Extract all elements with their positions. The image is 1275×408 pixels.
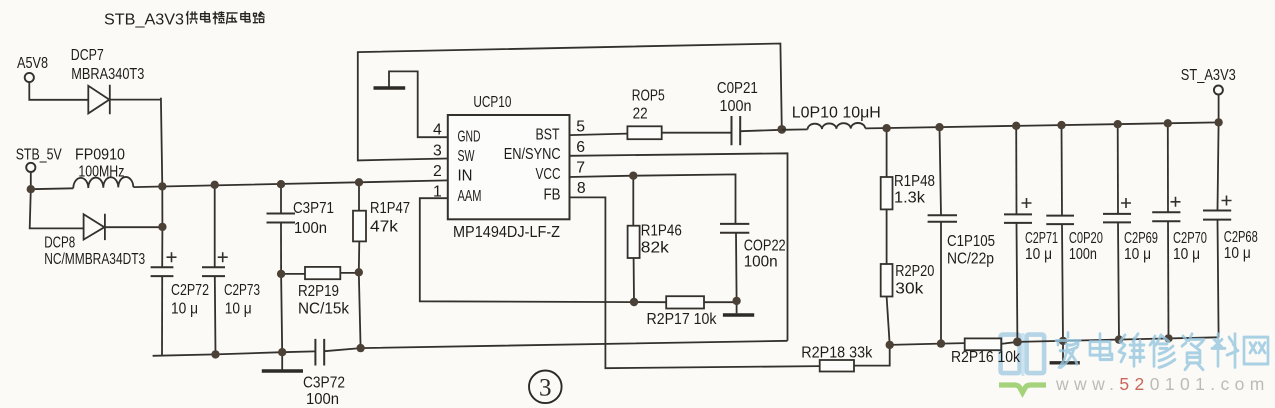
svg-text:R2P20: R2P20 <box>895 263 934 280</box>
junction VCC R1P46 top <box>629 172 637 180</box>
svg-text:8: 8 <box>577 180 586 197</box>
node ST_A3V3 terminal <box>1214 86 1223 95</box>
svg-text:82k: 82k <box>641 240 669 257</box>
junction C3P71 at rail <box>277 180 285 188</box>
capacitor C1P105 <box>928 127 957 343</box>
junction C0P20 at output rail <box>1057 121 1065 129</box>
junction C1P105 at output rail <box>935 123 943 131</box>
junction C2P73 at rail <box>211 181 219 189</box>
svg-text:22: 22 <box>633 106 648 123</box>
junction C3P71 at ground rail <box>278 348 286 356</box>
svg-text:STB_A3V3: STB_A3V3 <box>104 12 184 29</box>
wire output rail <box>865 95 1218 129</box>
wire pin8 FB down to R2P18 <box>570 197 820 368</box>
wire COP22 bottom to junction <box>735 233 738 301</box>
junction C0P20 ground symbol <box>1059 337 1067 345</box>
svg-text:100n: 100n <box>720 98 752 115</box>
svg-text:ROP5: ROP5 <box>632 88 665 105</box>
resistor R1P48 <box>881 128 893 209</box>
svg-text:5: 5 <box>576 119 585 136</box>
wire bottom right ground rail left of R2P16 <box>890 343 965 345</box>
wire pin1 AAM down and right to feedback rail <box>420 198 666 302</box>
resistor R2P19 <box>281 267 359 279</box>
svg-text:NC/22p: NC/22p <box>947 251 994 268</box>
svg-text:L0P10 10μH: L0P10 10μH <box>792 105 881 122</box>
inductor LOP10 <box>808 123 866 129</box>
svg-text:DCP8: DCP8 <box>44 235 75 252</box>
svg-text:6: 6 <box>576 139 585 156</box>
junction C2P69 at output rail <box>1114 120 1122 128</box>
capacitor C2P71 <box>1004 126 1032 342</box>
capacitor C2P72 <box>151 252 177 355</box>
svg-text:R2P18 33k: R2P18 33k <box>801 345 872 362</box>
svg-text:47k: 47k <box>370 219 398 236</box>
wire pin4 GND to ground symbol <box>389 71 448 137</box>
svg-text:VCC: VCC <box>536 166 561 183</box>
svg-text:10 μ: 10 μ <box>171 301 198 318</box>
svg-text:10 μ: 10 μ <box>1173 246 1200 263</box>
wire STB_5V down to rail <box>30 172 32 189</box>
svg-text:COP22: COP22 <box>744 238 786 255</box>
junction diodes at rail <box>158 182 166 190</box>
svg-text:100n: 100n <box>306 391 339 408</box>
junction R2P19 right <box>355 268 363 276</box>
junction C1P105 at ground rail <box>937 339 945 347</box>
resistor R2P16 <box>965 338 1018 350</box>
wire vertical x162 from DCP7 down through rail and DCP8 to C2P72 <box>161 98 163 267</box>
junction COP22 bottom <box>732 297 740 305</box>
svg-text:10 μ: 10 μ <box>1025 246 1052 263</box>
wire main 5V rail <box>31 180 448 189</box>
svg-text:7: 7 <box>576 160 585 177</box>
svg-text:100n: 100n <box>1069 246 1097 263</box>
svg-text:100MHz: 100MHz <box>78 164 124 181</box>
capacitor C3P72 <box>315 339 324 366</box>
svg-text:10 μ: 10 μ <box>1224 245 1251 262</box>
ground below right rail <box>1050 341 1080 363</box>
svg-text:UCP10: UCP10 <box>473 94 511 111</box>
svg-text:C3P72: C3P72 <box>303 375 345 392</box>
svg-text:FB: FB <box>544 187 561 204</box>
svg-text:NC/MMBRA34DT3: NC/MMBRA34DT3 <box>44 251 145 268</box>
ground below bottom rail left <box>262 352 303 371</box>
capacitor C2P68 <box>1203 122 1232 337</box>
svg-text:SW: SW <box>458 148 475 165</box>
wire DCP8 cathode to junction <box>105 226 162 228</box>
svg-text:C0P21: C0P21 <box>717 80 758 97</box>
wire COP21 to SW node <box>741 130 782 131</box>
wire R1P48 to R2P20 <box>886 209 888 264</box>
svg-text:MP1494DJ-LF-Z: MP1494DJ-LF-Z <box>453 224 560 241</box>
svg-text:C1P105: C1P105 <box>947 233 995 250</box>
resistor R1P47 <box>353 182 366 348</box>
svg-text:C2P68: C2P68 <box>1224 229 1258 246</box>
ground bar for GND pin <box>374 86 406 89</box>
svg-text:R1P48: R1P48 <box>894 173 935 190</box>
svg-text:C2P69: C2P69 <box>1124 230 1158 247</box>
wire pin7 VCC to COP22 <box>570 174 736 223</box>
node A5V8 terminal <box>25 73 34 82</box>
svg-text:ST_A3V3: ST_A3V3 <box>1181 67 1236 84</box>
svg-text:2: 2 <box>433 163 442 180</box>
svg-text:C2P71: C2P71 <box>1025 230 1058 247</box>
svg-text:4: 4 <box>433 122 442 139</box>
wire pin6 EN/SYNC loop down to bottom wire <box>570 153 788 340</box>
wire ROP5 to COP21 <box>662 132 731 134</box>
junction STB_5V at rail <box>27 185 35 193</box>
wire SW node to LOP10 <box>782 128 808 130</box>
inductor FP0910 <box>73 177 133 188</box>
resistor R2P18 <box>820 345 890 372</box>
junction R1P47 at ground rail <box>356 344 364 352</box>
node STB_5V terminal <box>26 163 35 172</box>
diode DCP8 <box>84 214 105 240</box>
junction C2P68 at output rail / ST_A3V3 <box>1214 118 1222 126</box>
svg-text:3: 3 <box>433 143 442 160</box>
capacitor C2P69 <box>1103 124 1131 339</box>
svg-text:1.3k: 1.3k <box>894 190 925 207</box>
svg-text:AAM: AAM <box>458 188 482 205</box>
junction R1P46 bottom <box>630 298 638 306</box>
svg-text:NC/15k: NC/15k <box>298 301 349 318</box>
svg-text:R2P17 10k: R2P17 10k <box>647 311 717 328</box>
resistor ROP5 <box>627 126 661 139</box>
svg-text:C3P71: C3P71 <box>293 200 334 217</box>
capacitor C3P71 <box>267 184 296 274</box>
svg-text:100n: 100n <box>744 254 778 271</box>
capacitor COP22 <box>720 224 749 233</box>
IC UCP10 MP1494DJ-LF-Z regulator <box>448 115 570 219</box>
wire pin5 BST to ROP5 <box>570 134 628 136</box>
svg-text:10 μ: 10 μ <box>225 301 252 318</box>
svg-text:R2P19: R2P19 <box>298 283 339 300</box>
wire DCP7 cathode to vertical <box>110 99 161 101</box>
svg-text:3: 3 <box>539 375 552 402</box>
node SW bootstrap LOP10 <box>777 125 786 134</box>
mark circled 3 <box>529 371 562 404</box>
capacitor C2P73 <box>202 185 228 354</box>
svg-text:C0P20: C0P20 <box>1069 230 1103 247</box>
svg-text:R1P47: R1P47 <box>370 200 410 217</box>
wire C3P71 junction down to bottom rail <box>281 274 282 352</box>
svg-text:STB_5V: STB_5V <box>16 147 62 164</box>
svg-text:100n: 100n <box>294 220 327 237</box>
svg-text:MBRA340T3: MBRA340T3 <box>71 66 144 83</box>
svg-text:DCP7: DCP7 <box>71 47 104 64</box>
watermark book icon <box>999 333 1046 393</box>
junction DCP8 cathode <box>158 223 166 231</box>
wire pin3 SW loop over IC to BST node <box>358 44 782 161</box>
svg-text:C2P73: C2P73 <box>224 282 260 299</box>
junction C2P70 at ground rail <box>1164 334 1172 342</box>
junction C2P70 at output rail <box>1164 119 1172 127</box>
svg-text:IN: IN <box>458 168 473 185</box>
svg-text:30k: 30k <box>895 281 923 298</box>
ground below COP22 <box>723 301 754 315</box>
svg-text:R1P46: R1P46 <box>641 223 682 240</box>
watermark CJK 家电维修资料网 <box>1056 333 1268 370</box>
capacitor COP21 <box>732 116 741 145</box>
junction C2P71 R2P16 at ground rail <box>1013 338 1022 347</box>
svg-text:www.520101.com: www.520101.com <box>1055 374 1270 394</box>
wire STB_5V down to DCP8 <box>30 189 83 228</box>
svg-text:GND: GND <box>458 129 481 146</box>
svg-text:A5V8: A5V8 <box>17 55 48 72</box>
resistor R1P46 <box>628 176 640 302</box>
watermark url www.520101.com <box>1055 374 1270 394</box>
capacitor C0P20 <box>1046 125 1074 341</box>
wire bottom right ground rail <box>1017 337 1218 342</box>
junction C2P69 at ground rail <box>1115 335 1123 343</box>
svg-text:C2P72: C2P72 <box>171 282 209 299</box>
junction C2P71 at output rail <box>1012 122 1020 130</box>
svg-text:C2P70: C2P70 <box>1173 230 1207 247</box>
svg-text:R2P16 10k: R2P16 10k <box>951 349 1020 366</box>
svg-text:10 μ: 10 μ <box>1124 246 1151 263</box>
capacitor C2P70 <box>1152 123 1180 338</box>
junction C2P73 at ground rail <box>211 350 219 358</box>
title CJK 供电稳压电路 <box>186 12 264 25</box>
resistor R2P17 <box>666 296 736 308</box>
svg-text:FP0910: FP0910 <box>75 147 125 164</box>
wire A5V8 to DCP7 <box>29 82 88 100</box>
svg-text:BST: BST <box>536 127 560 144</box>
wire bottom rail left with C3P72 <box>153 341 788 356</box>
diode DCP7 <box>88 85 110 114</box>
resistor R2P20 <box>881 264 893 345</box>
svg-text:EN/SYNC: EN/SYNC <box>504 146 561 163</box>
junction R2P20 R2P18 at ground rail <box>886 341 894 349</box>
junction R1P47 at rail <box>355 178 363 186</box>
junction R1P48 at output rail <box>882 124 890 132</box>
junction R2P19 left <box>277 270 285 278</box>
